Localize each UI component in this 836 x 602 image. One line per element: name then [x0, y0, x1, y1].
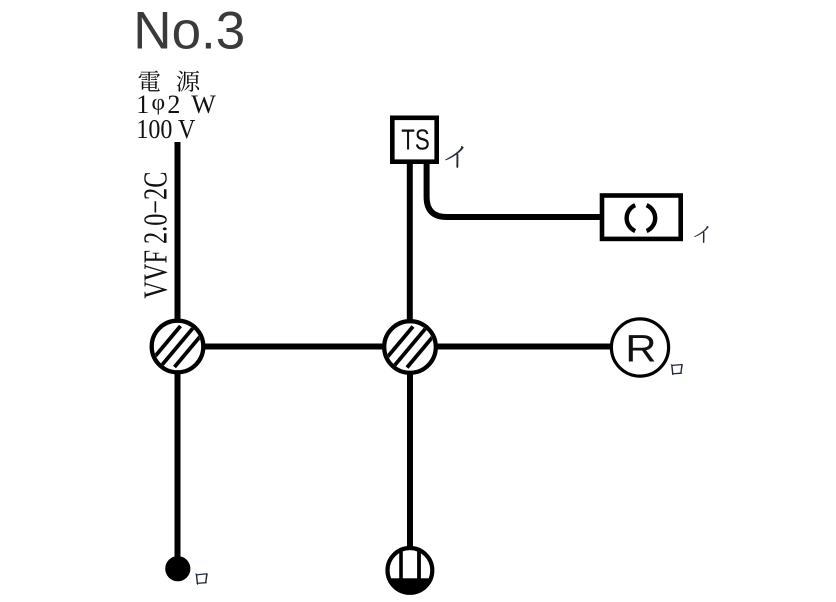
wire: joint box B down to ceiling light: [407, 373, 413, 549]
svg-text:TS: TS: [401, 124, 430, 156]
wire: joint box B up to timer switch TS: [407, 158, 413, 322]
label: kanji 源 (source): [177, 71, 200, 92]
svg-text:VVF 2.0−2C: VVF 2.0−2C: [137, 172, 174, 299]
lamp receptacle R: [611, 319, 668, 376]
svg-text:100 V: 100 V: [136, 114, 195, 144]
label: ロ at lamp receptacle: [671, 364, 683, 375]
svg-text:No.3: No.3: [133, 1, 245, 60]
joint box A (VVF joint box, left): [146, 321, 209, 373]
label: ロ at switch: [195, 573, 208, 585]
label: イ at timer switch: [445, 146, 464, 168]
label: イ at equipment box: [694, 226, 709, 243]
wire: power source down to joint box A: [175, 142, 181, 320]
wire: TS down-right curving to equipment box イ: [427, 158, 601, 217]
label: kanji 電 (electric): [139, 71, 160, 92]
equipment box with ( ) symbol: [602, 196, 681, 239]
hook ceiling light (round type): [385, 546, 435, 595]
svg-text:R: R: [625, 327, 656, 370]
joint box B (VVF joint box, right): [379, 321, 442, 373]
switch ロ (black dot): [165, 556, 190, 581]
wire: joint box B to lamp receptacle R: [435, 344, 612, 350]
wire: joint box A down to switch ロ: [175, 373, 181, 558]
wire: joint box A to joint box B: [203, 344, 385, 350]
timer switch box TS: [392, 118, 436, 162]
